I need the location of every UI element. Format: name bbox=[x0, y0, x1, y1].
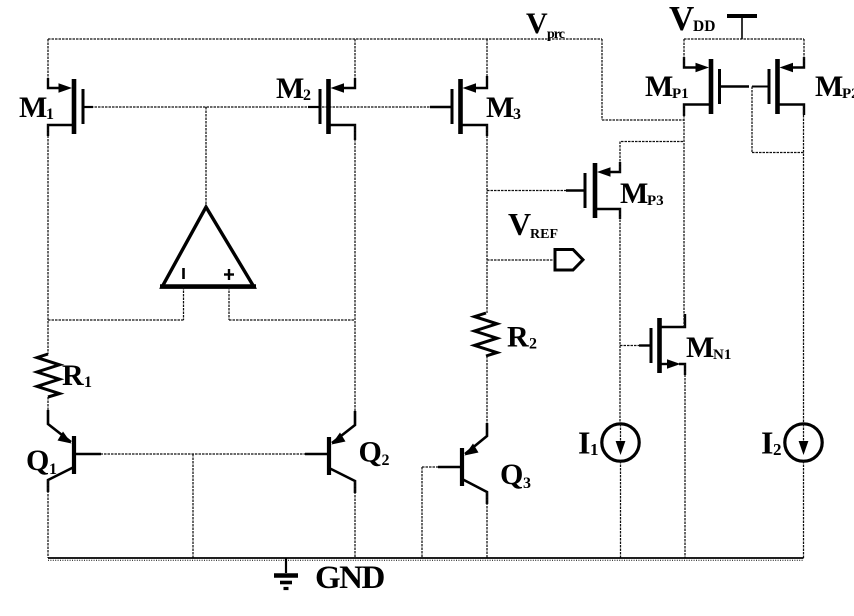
svg-text:2: 2 bbox=[773, 440, 782, 459]
wire: MP2 diode connection horizontal bbox=[752, 152, 804, 154]
power symbol VDD bbox=[727, 16, 757, 39]
wire: MP3 drain down to I1 bbox=[619, 209, 621, 422]
wire: gate stub at MP3 bbox=[566, 189, 585, 192]
transistor Q3 (PNP BJT) bbox=[462, 423, 487, 504]
svg-text:1: 1 bbox=[84, 374, 92, 391]
output port symbol VREF bbox=[555, 250, 583, 271]
wire: R2 to Q3 emitter bbox=[486, 356, 488, 436]
wire: inverting input to R1 node bbox=[48, 319, 184, 321]
svg-text:3: 3 bbox=[513, 106, 521, 123]
label Q1 bbox=[26, 444, 57, 478]
wire: Q2 collector to ground rail bbox=[354, 481, 356, 558]
svg-text:2: 2 bbox=[529, 336, 537, 353]
wire: MP1 drain node vertical bbox=[683, 105, 685, 328]
wire: MP3 gate to VREF branch bbox=[487, 190, 585, 192]
label MP2 bbox=[815, 70, 854, 103]
transistor Q1 (PNP BJT) bbox=[48, 410, 74, 492]
node VREF: tap wire bbox=[487, 259, 555, 261]
wire: Q1 base to Q2 base bbox=[76, 453, 327, 455]
wire: non-inverting input to Q2 node bbox=[229, 319, 355, 321]
transistor M1 (PMOS) bbox=[48, 78, 83, 136]
wire: I2 to ground rail bbox=[803, 461, 805, 558]
label MN1 bbox=[686, 331, 731, 364]
wire: M2 source vertical bbox=[354, 39, 356, 88]
svg-text:R: R bbox=[62, 359, 84, 392]
wire: gate bus M1-M2-M3 bbox=[84, 106, 452, 108]
wire: Q1 base stub bbox=[76, 453, 101, 455]
svg-text:P2: P2 bbox=[842, 86, 854, 102]
wire: M1 drain vertical down to R1 node bbox=[47, 125, 49, 354]
wire: Q3 collector to ground rail bbox=[486, 492, 488, 558]
wire: MP3 source up bbox=[620, 142, 684, 173]
wire: R1 to Q1 emitter bbox=[47, 397, 49, 424]
op-amp U1 bbox=[160, 207, 256, 287]
resistor R1 bbox=[37, 354, 60, 397]
resistor R2 bbox=[475, 313, 498, 356]
svg-text:REF: REF bbox=[530, 227, 558, 242]
current source I1 bbox=[602, 424, 639, 461]
svg-text:M: M bbox=[276, 72, 304, 105]
wire: gate stub at M3 bbox=[430, 106, 452, 108]
svg-text:V: V bbox=[526, 7, 548, 40]
wire: I1 to ground rail bbox=[620, 461, 622, 558]
svg-text:I: I bbox=[578, 425, 590, 461]
transistor MP2 (PMOS) bbox=[769, 57, 804, 115]
transistor MN1 (NMOS) bbox=[651, 314, 685, 375]
label Vprc bbox=[526, 7, 565, 42]
label I2 bbox=[761, 425, 782, 461]
wire: op-amp inverting input stem bbox=[183, 287, 185, 320]
wire: MN1 gate to I1 branch bbox=[620, 345, 651, 347]
wire: op-amp non-inverting input stem bbox=[228, 287, 230, 320]
transistor M2 (PMOS) bbox=[320, 78, 355, 140]
wire: Q1 collector to ground rail bbox=[47, 480, 49, 558]
wire: MP1-MP2 gate link right part bbox=[752, 86, 769, 88]
svg-text:N1: N1 bbox=[713, 347, 731, 363]
svg-text:V: V bbox=[669, 0, 694, 38]
wire: gate stub at MN1 bbox=[639, 344, 651, 346]
svg-text:P3: P3 bbox=[647, 193, 664, 209]
label M3 bbox=[486, 91, 521, 124]
svg-text:GND: GND bbox=[315, 560, 385, 596]
wire: base junction drop to ground bbox=[192, 454, 194, 558]
transistor Q2 (PNP BJT) bbox=[329, 411, 355, 493]
label VDD bbox=[669, 0, 715, 38]
wire: op-amp output to gate bus bbox=[205, 107, 207, 207]
label I1 bbox=[578, 425, 599, 461]
svg-text:I: I bbox=[761, 425, 773, 461]
label VREF bbox=[508, 206, 558, 242]
wire: ground rail dotted fringe bbox=[48, 559, 804, 561]
svg-text:M: M bbox=[19, 91, 47, 124]
wire: Q2 base stub bbox=[305, 453, 327, 455]
label M1 bbox=[19, 91, 54, 124]
transistor MP3 (PMOS) bbox=[585, 162, 620, 219]
label M2 bbox=[276, 72, 311, 105]
svg-text:Q: Q bbox=[500, 458, 523, 491]
svg-text:1: 1 bbox=[46, 106, 54, 123]
svg-text:2: 2 bbox=[382, 452, 390, 469]
wire: Vprc elbow down bbox=[601, 39, 603, 120]
svg-text:R: R bbox=[507, 321, 529, 354]
current source I2 bbox=[785, 424, 822, 461]
wire: MP1 gate to MP2 gate bbox=[721, 85, 749, 87]
svg-text:M: M bbox=[645, 70, 673, 103]
svg-text:Q: Q bbox=[26, 444, 49, 477]
label MP3 bbox=[620, 177, 664, 210]
wire: M1 source vertical bbox=[47, 39, 49, 88]
wire: M3 source vertical bbox=[486, 39, 488, 88]
svg-text:M: M bbox=[486, 91, 514, 124]
wire: top pre-regulated rail Vprc bbox=[48, 38, 602, 40]
svg-text:M: M bbox=[686, 331, 714, 364]
wire: VDD rail bbox=[684, 38, 804, 40]
wire: MP1 source from VDD rail bbox=[683, 39, 685, 68]
svg-text:prc: prc bbox=[547, 27, 565, 42]
wire: Q3 base stub bbox=[438, 466, 460, 468]
transistor MP1 (PMOS) bbox=[684, 57, 720, 116]
svg-text:P1: P1 bbox=[672, 86, 689, 102]
svg-text:M: M bbox=[815, 70, 843, 103]
svg-text:Q: Q bbox=[359, 436, 382, 469]
wire: MP2 source from VDD rail bbox=[803, 39, 805, 68]
svg-text:DD: DD bbox=[693, 18, 715, 35]
label Q2 bbox=[359, 436, 390, 470]
svg-text:3: 3 bbox=[523, 475, 531, 492]
wire: MN1 source down to ground bbox=[684, 364, 686, 558]
wire: gate stub at M2 bbox=[308, 106, 320, 108]
wire: M3 drain vertical down to R2 bbox=[486, 125, 488, 313]
label R2 bbox=[507, 321, 537, 354]
wire: M2 drain vertical down to Q2 bbox=[354, 125, 356, 425]
label R1 bbox=[62, 359, 92, 392]
ground symbol bbox=[274, 558, 298, 589]
wire: gate stub at M1 bbox=[84, 106, 93, 108]
svg-text:1: 1 bbox=[49, 461, 57, 478]
wire: MP2 drain down to I2 bbox=[803, 105, 805, 423]
svg-text:V: V bbox=[508, 206, 531, 242]
transistor M3 (PMOS) bbox=[452, 76, 487, 136]
wire: ground rail bbox=[48, 557, 804, 559]
label Q3 bbox=[500, 458, 531, 492]
svg-text:2: 2 bbox=[303, 87, 311, 104]
wire: Vprc elbow horizontal to node bbox=[602, 119, 684, 121]
wire: Q3 base lead left bbox=[422, 466, 460, 468]
wire: MP2 diode connection gate drop bbox=[751, 87, 753, 153]
svg-text:1: 1 bbox=[590, 440, 599, 459]
svg-text:M: M bbox=[620, 177, 648, 210]
wire: Q3 base drop to ground bbox=[421, 467, 423, 558]
label MP1 bbox=[645, 70, 689, 103]
